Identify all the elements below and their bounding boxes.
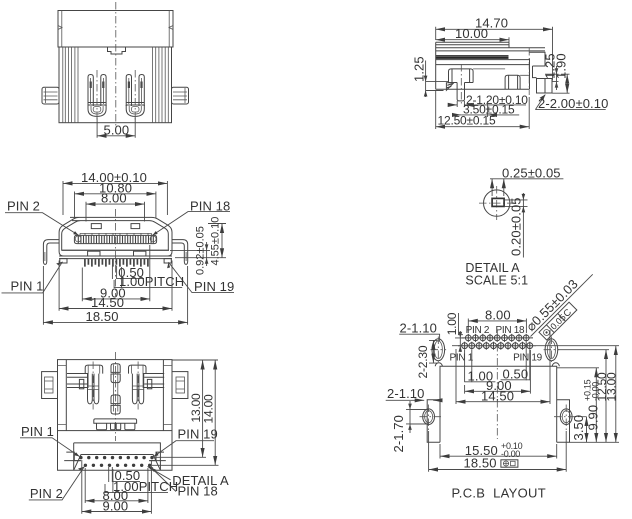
pcb outline: [440, 366, 557, 442]
thick shield band: [436, 56, 509, 59]
svg-text:1.00PITCH: 1.00PITCH: [119, 274, 184, 289]
insulator ledge lines: [473, 69, 529, 75]
comb teeth under shell: [85, 259, 148, 267]
svg-text:PIN 1: PIN 1: [21, 424, 54, 439]
svg-text:14.00: 14.00: [202, 394, 216, 424]
bottom tab left: [88, 251, 100, 256]
dim 1.00 (row gap): [452, 338, 464, 346]
dim 9.00 (pcb): [465, 350, 531, 394]
svg-text:18.50: 18.50: [464, 456, 497, 471]
svg-text:-0.00: -0.00: [501, 449, 520, 459]
svg-text:PIN 2: PIN 2: [7, 199, 40, 214]
svg-text:0.25±0.05: 0.25±0.05: [502, 165, 561, 180]
svg-text:13.00: 13.00: [605, 372, 619, 402]
dim 14.00: [152, 464, 219, 466]
shield step lines: [436, 42, 545, 51]
dim 8.00 (pcb): [468, 319, 526, 334]
callout 0.55±0.03: [520, 264, 603, 347]
dim 1.00PITCH (front): [114, 267, 122, 288]
dim 1.90 right: [552, 74, 569, 93]
svg-text:PIN 2: PIN 2: [30, 486, 63, 501]
svg-text:PIN 1: PIN 1: [450, 352, 474, 363]
pads top row (pins 2-18): [465, 334, 529, 342]
left side leg: [43, 240, 59, 265]
rear leg centerline: [528, 48, 530, 95]
dim 9.00 (bottom view): [82, 460, 152, 514]
pin dots row2: [84, 464, 152, 467]
pin dots row1: [79, 456, 153, 459]
corner notch left: [435, 363, 442, 367]
right side leg: [172, 240, 188, 265]
shell hole mid-right: [554, 405, 587, 431]
corner notch right: [552, 363, 559, 367]
dim 14.70: [436, 27, 553, 81]
pin cross-section: [492, 198, 504, 206]
svg-text:9.00: 9.00: [103, 498, 129, 513]
left edge: [435, 42, 437, 89]
left tab: [427, 400, 440, 443]
step lines: [504, 200, 527, 207]
right spring contact: [126, 70, 144, 121]
dim 1.25 left: [426, 61, 449, 98]
face dimple right: [131, 224, 140, 229]
svg-text:PIN 19: PIN 19: [194, 279, 234, 294]
pads bottom row (pins 1-19): [462, 342, 533, 350]
dim 14.50 (pcb): [456, 330, 550, 404]
dim 15.50: [440, 444, 557, 459]
svg-text:P.C.B LAYOUT: P.C.B LAYOUT: [452, 486, 546, 501]
svg-text:18.50: 18.50: [86, 309, 119, 324]
dim 10.00: [508, 37, 510, 42]
svg-text:12.50±0.15: 12.50±0.15: [438, 114, 496, 128]
body outline: [58, 360, 173, 431]
svg-text:5.00: 5.00: [104, 123, 130, 138]
svg-text:PIN 18: PIN 18: [496, 325, 526, 336]
lower section outline: [58, 431, 173, 471]
shield top plate: [58, 11, 173, 48]
centerline pcb: [496, 330, 498, 439]
svg-text:14.50: 14.50: [481, 388, 514, 403]
svg-text:PIN 1: PIN 1: [11, 279, 44, 294]
shell inner outline: [62, 221, 169, 251]
svg-text:PIN 19: PIN 19: [513, 352, 543, 363]
pedestal: [94, 419, 137, 423]
shield profile top lines: [436, 42, 509, 45]
dim 0.92±0.05: [170, 250, 226, 257]
dim 1.25 right: [545, 74, 559, 81]
centerline: [115, 2, 117, 128]
svg-text:0.92±0.05: 0.92±0.05: [194, 226, 206, 275]
svg-text:3.50: 3.50: [571, 415, 586, 441]
insulator bottom: [436, 59, 530, 89]
right side tab: [172, 372, 188, 399]
weld tick right: [169, 26, 173, 30]
dim 2-1.20±0.10: [449, 104, 458, 106]
connector body: [59, 47, 172, 123]
dim 0.50 (bottom view): [109, 467, 113, 482]
dim 9.00 (front): [82, 245, 150, 301]
dim 0.20±0.05: [522, 193, 524, 258]
dim 2-2.00±0.10: [535, 95, 605, 110]
svg-text:1.00: 1.00: [445, 312, 459, 335]
svg-text:2-1.10: 2-1.10: [387, 386, 424, 401]
bottom plate line: [62, 249, 169, 251]
dim 18.50: [43, 266, 187, 325]
svg-text:0.20±0.05: 0.20±0.05: [509, 197, 524, 256]
detail circle: [484, 190, 510, 216]
center notch: [108, 47, 126, 54]
dim 3.50 (pcb): [586, 417, 588, 443]
dim 1.00PITCH (bottom view): [105, 469, 113, 493]
svg-text:14.50: 14.50: [91, 295, 124, 310]
right contact assembly (mirrored): [129, 362, 165, 410]
svg-text:2-2.00±0.10: 2-2.00±0.10: [538, 96, 608, 111]
center clips: [111, 364, 120, 414]
shell corner foot right: [164, 259, 171, 263]
weld tick left: [58, 26, 62, 30]
dim 3.50±0.15: [487, 101, 489, 117]
crosshair: [479, 186, 515, 220]
left flange: [42, 87, 59, 104]
front leg stem: [457, 83, 464, 101]
pad row line top: [462, 337, 534, 339]
shell corner foot left: [60, 259, 67, 263]
svg-text:1.90: 1.90: [554, 53, 569, 79]
body bottom line: [436, 64, 530, 66]
tongue bar: [74, 233, 156, 243]
svg-text:8.00: 8.00: [485, 307, 511, 322]
dim 9.90 (pcb): [557, 367, 599, 369]
svg-text:8.00: 8.00: [101, 190, 127, 205]
inner walls: [66, 360, 163, 431]
shell outer outline: [59, 217, 172, 256]
position tolerance frame: [501, 460, 518, 467]
front leg T-block: [449, 69, 474, 83]
pad row line bottom: [458, 345, 536, 347]
svg-text:SCALE 5:1: SCALE 5:1: [465, 274, 528, 288]
svg-text:1.25: 1.25: [412, 56, 427, 82]
body hatch left: [63, 47, 78, 123]
solder base: [74, 443, 161, 470]
left spring contact: [88, 70, 106, 121]
dim 18.50 (pcb): [429, 431, 567, 472]
centerline: [115, 352, 117, 441]
lower steps: [66, 452, 164, 461]
svg-text:9.90: 9.90: [586, 405, 601, 431]
dim 12.50±0.15: [436, 91, 530, 129]
dim 0.50 (pads): [526, 342, 530, 380]
dim 8.00 (bottom view): [85, 468, 148, 503]
shell hole top-left: [431, 337, 447, 364]
bottom tab right: [134, 251, 146, 256]
svg-text:10.00: 10.00: [455, 26, 488, 41]
svg-text:4.55±0.10: 4.55±0.10: [209, 217, 221, 266]
svg-text:2-1.70: 2-1.70: [391, 415, 406, 452]
dim 13.00 (pcb): [536, 346, 619, 443]
dim 2-1.70: [406, 410, 429, 424]
centerline: [115, 209, 117, 296]
svg-text:2-2.30: 2-2.30: [416, 345, 430, 378]
dim 14.50: [59, 261, 172, 311]
svg-text:PIN 2: PIN 2: [466, 325, 490, 336]
svg-text:PIN 18: PIN 18: [178, 484, 218, 499]
dim 12.50 (pcb): [558, 349, 609, 351]
dim 0.50 (front): [112, 266, 116, 280]
leg hatch wedge: [446, 83, 453, 91]
rear foot: [537, 79, 553, 94]
rear bracket block: [530, 52, 546, 77]
svg-text:PIN 19: PIN 19: [178, 427, 218, 442]
dim 10.80: [75, 192, 156, 219]
right flange: [172, 87, 189, 104]
dim 14.00±0.10: [63, 181, 167, 215]
svg-text:2-1.10: 2-1.10: [400, 321, 437, 336]
dim 8.00: [86, 202, 145, 222]
face dimple left: [91, 224, 101, 229]
leg centerline: [460, 64, 462, 104]
shell hole top-right: [544, 337, 560, 364]
dim 5.00: [97, 118, 135, 138]
body hatch right: [153, 47, 169, 123]
dim 2-2.30: [429, 340, 438, 363]
right tab: [557, 400, 570, 443]
dim 13.00: [155, 360, 218, 457]
shell hole mid-left: [420, 405, 444, 431]
dim 4.55±0.10: [208, 223, 226, 225]
left side tab: [42, 372, 58, 399]
rear leg block: [505, 75, 520, 89]
dim 1.00 (pads): [465, 350, 472, 382]
shell bottom rim: [59, 256, 172, 259]
left contact assembly: [67, 362, 103, 410]
pad trapezoid: [74, 455, 161, 471]
